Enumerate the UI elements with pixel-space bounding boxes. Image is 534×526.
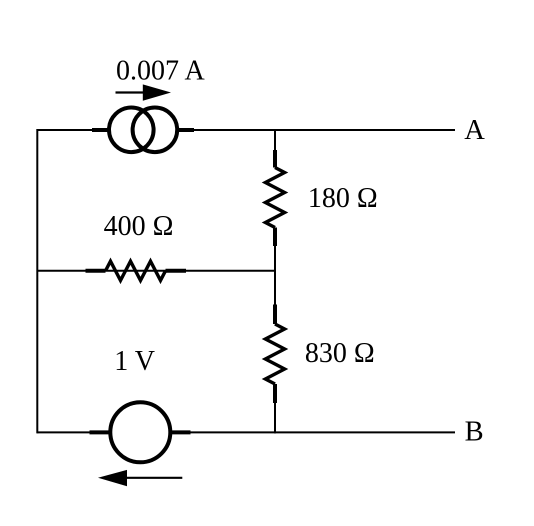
wire top horizontal (current source row to node A) — [37, 129, 455, 131]
wire left vertical — [36, 129, 38, 433]
wire right vertical segment between R 180 and middle node — [274, 246, 276, 272]
svg-text:1 V: 1 V — [114, 346, 155, 377]
svg-text:180 Ω: 180 Ω — [308, 183, 378, 214]
voltage source V1 symbol (circle) — [110, 402, 170, 462]
wire right vertical segment top (node A branch to R 180) — [274, 129, 276, 151]
wire right vertical segment between middle node and R 830 — [274, 271, 276, 305]
voltage reference arrow (left) — [98, 470, 182, 486]
resistor R3 400 ohm zigzag — [86, 261, 187, 280]
wire middle horizontal — [37, 270, 275, 272]
current source I1 leads — [92, 128, 194, 132]
wire bottom horizontal (voltage source row to node B) — [37, 431, 455, 433]
svg-text:400 Ω: 400 Ω — [104, 211, 174, 242]
current direction arrow (right) — [116, 84, 172, 100]
current source I1 symbol (two overlapping circles) — [109, 108, 177, 153]
wire right vertical segment bottom (R 830 to node B wire) — [274, 403, 276, 433]
resistor R1 180 ohm zigzag — [265, 150, 284, 246]
resistor R2 830 ohm zigzag — [265, 305, 284, 404]
svg-text:0.007 A: 0.007 A — [116, 55, 205, 86]
voltage source V1 leads — [90, 430, 191, 434]
svg-text:B: B — [465, 416, 484, 447]
svg-text:A: A — [464, 115, 485, 146]
svg-text:830 Ω: 830 Ω — [305, 338, 375, 369]
